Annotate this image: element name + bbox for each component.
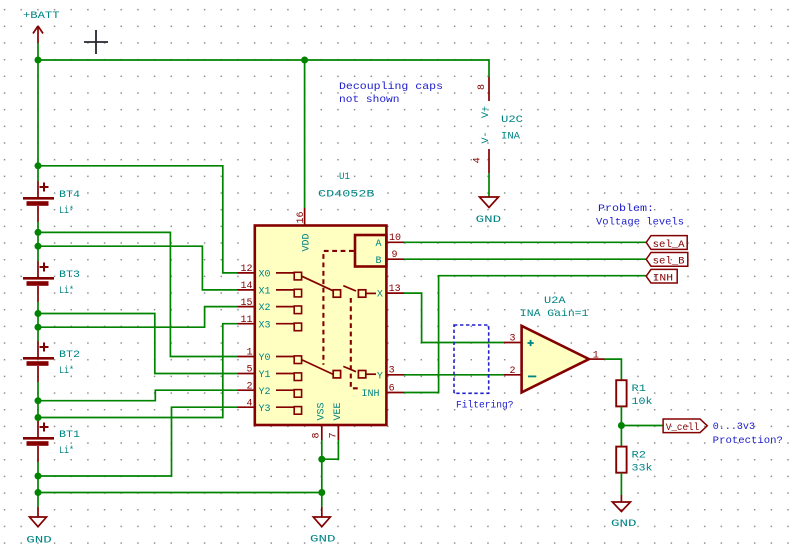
wire left bus segments (37, 43, 39, 507)
junction (318, 489, 325, 496)
wire Y3 (38, 407, 238, 476)
wire X1 (38, 246, 238, 290)
U1 pin 2 Y2 (238, 381, 302, 397)
svg-text:A: A (376, 239, 382, 250)
svg-text:X1: X1 (259, 287, 271, 298)
wire V_cell (621, 425, 663, 427)
ground U2C (476, 197, 502, 226)
U1 pin 16 VDD (296, 208, 313, 252)
note decoupling caps (339, 81, 443, 106)
wire top +BATT rail (38, 60, 489, 77)
junction (35, 243, 42, 250)
wire X3 (38, 324, 238, 418)
svg-text:33k: 33k (632, 462, 653, 474)
svg-text:INH: INH (653, 274, 674, 285)
wire Y out to op-amp (404, 374, 504, 376)
U1 switch Y arm (302, 360, 376, 378)
svg-text:sel_B: sel_B (653, 256, 685, 268)
svg-text:Y0: Y0 (259, 353, 271, 364)
wire X0 (38, 166, 238, 273)
junction (35, 489, 42, 496)
svg-text:12: 12 (240, 264, 252, 275)
note protection (713, 421, 783, 447)
svg-text:V_cell: V_cell (666, 422, 699, 434)
wire U2C to ground (488, 173, 490, 197)
svg-text:BT3: BT3 (59, 269, 80, 281)
junction (318, 456, 325, 463)
svg-text:15: 15 (240, 298, 252, 309)
global label sel_A (646, 236, 687, 251)
U1 pin 12 X0 (238, 264, 302, 280)
svg-text:4: 4 (246, 398, 252, 409)
wire Y0 (38, 232, 238, 356)
wire VDD drop (304, 60, 306, 208)
svg-text:GND: GND (476, 214, 502, 226)
svg-text:Li*: Li* (59, 365, 74, 377)
svg-text:INA: INA (501, 131, 521, 143)
svg-text:Voltage levels: Voltage levels (596, 216, 684, 228)
svg-text:X3: X3 (259, 320, 271, 331)
U1 pin 7 VEE (328, 402, 344, 440)
U1 pin 8 VSS (312, 402, 328, 440)
U1 pin 14 X1 (238, 281, 302, 297)
svg-text:X0: X0 (259, 270, 271, 281)
svg-text:Y2: Y2 (259, 387, 271, 398)
svg-text:GND: GND (611, 518, 637, 530)
wire VSS down (321, 440, 323, 507)
junction (35, 397, 42, 404)
svg-text:4: 4 (473, 157, 484, 163)
svg-text:16: 16 (296, 211, 307, 223)
svg-text:V+: V+ (481, 106, 492, 118)
U1 pin 1 Y0 (238, 348, 302, 364)
junction (35, 414, 42, 421)
wire sel_B (404, 258, 646, 260)
U1 pin 6 INH (362, 383, 405, 400)
svg-text:Y3: Y3 (259, 404, 271, 415)
svg-text:B: B (376, 256, 382, 267)
U1 pin 4 Y3 (238, 398, 302, 414)
svg-text:CD4052B: CD4052B (318, 189, 375, 201)
svg-text:7: 7 (328, 432, 339, 438)
U1 pin 5 Y1 (238, 365, 302, 381)
svg-text:10: 10 (389, 233, 401, 244)
svg-text:9: 9 (392, 250, 398, 261)
ground right (611, 495, 637, 530)
svg-text:11: 11 (240, 315, 252, 326)
svg-text:U2C: U2C (501, 114, 523, 126)
svg-text:Problem:: Problem: (598, 203, 654, 215)
svg-text:U2A: U2A (544, 295, 566, 307)
wire VEE elbow (322, 440, 339, 459)
U1 pin 11 X3 (238, 315, 302, 331)
svg-text:14: 14 (240, 281, 252, 292)
svg-text:U1: U1 (339, 171, 350, 183)
IC U1 CD4052B body (255, 171, 387, 425)
wire X out to op-amp (404, 293, 504, 342)
svg-text:13: 13 (389, 284, 401, 295)
U1 pin 9 B (376, 250, 405, 267)
power +BATT (23, 10, 60, 43)
svg-text:10k: 10k (632, 396, 653, 408)
U1 pin 15 X2 (238, 298, 302, 314)
wire Y2 (38, 390, 238, 401)
junction (35, 162, 42, 169)
U1 pin 10 A (376, 233, 405, 250)
svg-text:VEE: VEE (333, 402, 344, 420)
wire X2 (38, 307, 238, 328)
svg-text:Y1: Y1 (259, 370, 271, 381)
svg-text:0...3v3: 0...3v3 (713, 421, 755, 433)
svg-text:INA Gain=1: INA Gain=1 (520, 308, 589, 320)
global label sel_B (646, 253, 688, 268)
U1 control dashed line A/B (323, 251, 353, 365)
svg-text:5: 5 (246, 365, 252, 376)
svg-text:8: 8 (312, 432, 323, 438)
resistor R1 (616, 380, 652, 408)
svg-text:6: 6 (389, 383, 395, 394)
svg-text:1: 1 (246, 348, 252, 359)
svg-text:BT4: BT4 (59, 189, 80, 201)
U1 pin 3 Y (377, 366, 404, 383)
op-amp U2A (504, 295, 605, 392)
svg-text:VSS: VSS (316, 402, 327, 420)
wire bottom ground rail (38, 492, 322, 494)
filtering dashed box (454, 325, 489, 393)
svg-text:R1: R1 (632, 383, 647, 395)
ground middle (310, 507, 336, 546)
U1 switch X arm (302, 276, 376, 297)
op-amp U2C power pins (473, 77, 524, 173)
svg-text:Filtering?: Filtering? (456, 400, 514, 412)
svg-text:GND: GND (310, 534, 336, 546)
svg-text:Li*: Li* (59, 205, 74, 217)
svg-text:INH: INH (362, 389, 380, 400)
wire R1 to R2 (620, 406, 622, 446)
svg-text:Decoupling caps: Decoupling caps (339, 81, 443, 93)
svg-text:Li*: Li* (59, 285, 74, 297)
wire sel_A (404, 241, 646, 243)
svg-text:BT2: BT2 (59, 349, 80, 361)
svg-text:1: 1 (593, 350, 599, 361)
svg-text:Li*: Li* (59, 445, 74, 457)
svg-text:+BATT: +BATT (23, 10, 60, 22)
svg-text:VDD: VDD (302, 233, 313, 251)
junction (618, 422, 625, 429)
svg-text:X2: X2 (259, 303, 271, 314)
global label V_cell (663, 419, 707, 434)
svg-text:GND: GND (26, 535, 52, 547)
wire Y1 (38, 314, 238, 374)
ground left (26, 507, 52, 547)
svg-text:Y: Y (377, 371, 383, 382)
svg-text:8: 8 (477, 84, 488, 90)
svg-text:2: 2 (509, 366, 515, 377)
U1 select block A/B (355, 235, 386, 267)
svg-text:R2: R2 (632, 449, 647, 461)
global label INH (646, 269, 677, 284)
svg-text:X: X (377, 290, 383, 301)
junction (35, 57, 42, 64)
junction (35, 324, 42, 331)
svg-text:3: 3 (509, 334, 515, 345)
wire R2 to ground (620, 473, 622, 495)
battery BT3 (23, 261, 80, 302)
junction (301, 57, 308, 64)
battery BT4 (23, 181, 80, 222)
junction (35, 310, 42, 317)
svg-text:V-: V- (481, 131, 492, 143)
junction (35, 473, 42, 480)
U1 pin 13 X (377, 284, 404, 301)
note problem voltage levels (596, 203, 684, 228)
svg-text:not shown: not shown (339, 94, 400, 106)
svg-text:3: 3 (389, 366, 395, 377)
U1 control dashed line INH (351, 298, 360, 388)
cursor crosshair (84, 30, 108, 54)
resistor R2 (616, 447, 652, 475)
wire op-amp out (605, 359, 622, 380)
wire INH net (404, 276, 646, 393)
svg-text:2: 2 (246, 381, 252, 392)
junction (35, 229, 42, 236)
svg-text:BT1: BT1 (59, 429, 80, 441)
battery BT2 (23, 341, 80, 382)
svg-text:Protection?: Protection? (713, 435, 783, 447)
battery BT1 (23, 421, 80, 462)
svg-text:sel_A: sel_A (653, 239, 685, 251)
